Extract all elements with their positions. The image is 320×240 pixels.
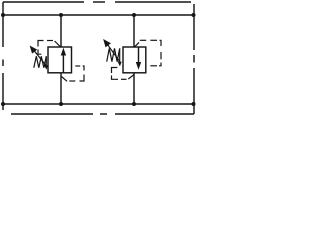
- wire: valve V2 inlet riser: [133, 15, 135, 47]
- enclosure boundary left chain line: [2, 2, 4, 110]
- relief valve V2 pilot line (spring side, dashed): [112, 68, 135, 80]
- wire: valve V2 outlet drop: [133, 73, 135, 104]
- relief valve V1 pilot line (spring side, dashed): [38, 41, 61, 55]
- relief valve V1 body: [48, 47, 72, 73]
- node: top bus valve V2 junction: [132, 13, 136, 17]
- relief valve V2 body: [123, 47, 146, 73]
- relief valve V1 flow arrow (up): [61, 48, 66, 73]
- node: bottom bus valve V2 junction: [132, 102, 136, 106]
- enclosure boundary top chain line: [3, 1, 191, 3]
- relief valve V2 pilot line (right side, dashed): [135, 40, 162, 66]
- wire: valve V1 inlet riser: [60, 15, 62, 47]
- relief valve V2 spring: [107, 48, 120, 64]
- relief valve V1 spring: [34, 56, 47, 68]
- node: top bus valve V1 junction: [59, 13, 63, 17]
- relief valve V1 adjustment arrow: [30, 46, 47, 68]
- node: bottom bus right junction: [192, 102, 196, 106]
- node: bottom bus valve V1 junction: [59, 102, 63, 106]
- relief valve V1 pilot line (right side, dashed): [62, 66, 85, 81]
- node: bottom bus left junction: [1, 102, 5, 106]
- wire: bottom tank bus T: [3, 103, 194, 105]
- wire: valve V1 outlet drop: [60, 73, 62, 104]
- node: top bus left junction: [1, 13, 5, 17]
- relief valve V2 flow arrow (down): [136, 47, 141, 69]
- enclosure boundary bottom chain line: [11, 113, 194, 115]
- enclosure boundary right chain line: [193, 4, 195, 114]
- node: top bus right junction: [192, 13, 196, 17]
- wire: top pressure bus P: [3, 14, 194, 16]
- relief valve V2 adjustment arrow: [104, 40, 121, 66]
